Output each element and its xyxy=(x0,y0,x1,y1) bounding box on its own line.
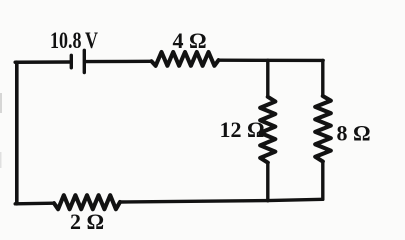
resistor R2 12-ohm vertical zigzag xyxy=(260,97,275,163)
wire: right vertical drop from top corner xyxy=(321,60,324,96)
resistor R1 4-ohm zigzag xyxy=(152,52,219,66)
wire: 4-ohm to top-right corner xyxy=(219,59,324,63)
wire: 12-ohm branch top drop xyxy=(266,60,269,97)
svg-text:4 Ω: 4 Ω xyxy=(173,28,207,53)
svg-text:10.8 V: 10.8 V xyxy=(50,28,98,53)
svg-text:2 Ω: 2 Ω xyxy=(70,209,104,234)
wire: 8-ohm bottom drop xyxy=(321,162,324,200)
wire: 12-ohm bottom drop to bottom rail xyxy=(266,163,269,201)
svg-text:12 Ω: 12 Ω xyxy=(220,117,265,142)
battery B1 long plate (positive) xyxy=(83,50,86,72)
wire: bottom rail 2-ohm to right corner xyxy=(120,199,323,202)
wire: left vertical side xyxy=(15,62,19,204)
wire: bottom-left rail to 2-ohm xyxy=(15,201,54,205)
svg-text:8 Ω: 8 Ω xyxy=(337,120,371,145)
wire: battery to 4-ohm resistor xyxy=(86,60,152,64)
resistor R4 2-ohm zigzag xyxy=(54,195,120,209)
resistor R3 8-ohm vertical zigzag xyxy=(315,96,331,162)
battery B1 short plate (negative) xyxy=(70,55,73,68)
wire: top-left horizontal to battery xyxy=(15,60,69,64)
